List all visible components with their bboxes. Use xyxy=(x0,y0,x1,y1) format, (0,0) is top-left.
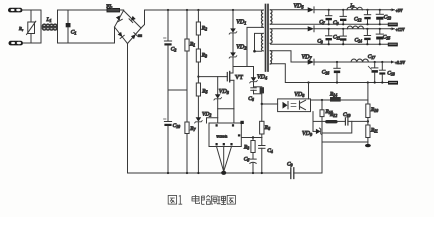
AC plug terminal bottom xyxy=(9,41,28,46)
node R8 branch xyxy=(252,136,254,138)
opto left wire xyxy=(262,103,278,105)
svg-text:R11: R11 xyxy=(370,128,378,134)
svg-text:C18: C18 xyxy=(387,71,395,77)
transformer secondary A winding xyxy=(270,10,272,24)
inductor L4 xyxy=(351,59,368,62)
node top rail C2 column xyxy=(167,9,169,11)
wire primary return loop xyxy=(247,27,262,66)
bridge diode upper-left xyxy=(115,15,122,22)
feedback divider R10 xyxy=(366,83,370,126)
IC U1 xyxy=(209,121,244,147)
feedback divider R11 xyxy=(366,125,370,145)
transformer primary winding xyxy=(261,10,263,27)
resistor R1 xyxy=(185,10,189,122)
zener VD9 xyxy=(313,128,322,135)
wire IC pin jog xyxy=(207,118,218,123)
MOSFET VT xyxy=(227,72,234,109)
return B junctions xyxy=(328,43,381,45)
transformer aux winding xyxy=(261,33,263,51)
svg-text:VD2: VD2 xyxy=(236,45,246,51)
svg-text:R2: R2 xyxy=(201,26,207,32)
capacitor C5 xyxy=(250,159,256,173)
svg-text:C9: C9 xyxy=(333,20,339,26)
optocoupler VD8 xyxy=(278,83,311,112)
svg-text:R8: R8 xyxy=(243,145,249,151)
capacitor C10 xyxy=(164,119,172,173)
svg-text:UC3842: UC3842 xyxy=(217,135,228,139)
svg-text:Rv: Rv xyxy=(18,26,24,32)
common mode choke L1 xyxy=(41,10,58,43)
bridge diode lower-right xyxy=(131,33,138,40)
secondary B return xyxy=(271,43,388,45)
opto transistor wire to R14 xyxy=(311,99,331,101)
capacitor C11 xyxy=(340,28,346,45)
svg-text:C19: C19 xyxy=(343,112,351,118)
svg-text:L1: L1 xyxy=(46,17,52,23)
bottom primary ground rail xyxy=(128,172,291,174)
wire top AC xyxy=(27,9,41,11)
svg-text:+3.3V: +3.3V xyxy=(395,60,405,65)
AC plug terminal top xyxy=(8,8,27,13)
svg-text:R10: R10 xyxy=(370,107,378,113)
svg-text:R12: R12 xyxy=(329,112,337,118)
svg-text:C5: C5 xyxy=(244,157,250,163)
secondary C return xyxy=(271,64,391,83)
wire bridge left vertex down xyxy=(114,27,116,43)
node bottom rail C10 xyxy=(167,172,169,174)
wire aux winding connections xyxy=(253,33,261,52)
ground dot below divider xyxy=(365,144,371,147)
transformer secondary C winding xyxy=(270,51,272,65)
wire bottom AC xyxy=(27,42,41,44)
varistor RV xyxy=(27,10,36,43)
svg-text:C15: C15 xyxy=(383,35,391,41)
node top rail R2 column xyxy=(197,9,199,11)
node opto left xyxy=(261,103,263,105)
wire drain node horizontal xyxy=(233,66,254,68)
Y-capacitor C9 xyxy=(291,168,322,179)
capacitor C12 xyxy=(364,9,370,25)
zener VD3 branch xyxy=(214,77,234,123)
bridge diode upper-right xyxy=(129,16,136,23)
glyph 理 xyxy=(217,196,226,204)
glyph 图 xyxy=(168,196,176,205)
svg-text:C9: C9 xyxy=(287,162,293,168)
snubber C6 and R9 xyxy=(251,87,264,104)
node bottom rail R7 xyxy=(186,172,188,174)
wire MOSFET source to IC xyxy=(233,109,235,123)
node top rail R1 column xyxy=(186,9,188,11)
capacitor C18 xyxy=(379,61,385,83)
secondary C top wire xyxy=(271,51,308,62)
GND terminal B xyxy=(388,43,398,47)
svg-text:C16: C16 xyxy=(322,70,330,76)
zener VD4 xyxy=(250,67,258,87)
resistor R6 xyxy=(260,104,264,138)
svg-text:+5V: +5V xyxy=(396,8,403,13)
svg-text:L2: L2 xyxy=(350,3,355,9)
opto cathode riser xyxy=(312,112,314,132)
secondary A top wire xyxy=(271,9,308,11)
resistor R7 xyxy=(185,122,189,173)
svg-text:VD8: VD8 xyxy=(294,92,305,98)
gate wire xyxy=(198,76,227,78)
capacitor C14 xyxy=(364,28,370,45)
capacitor C9a xyxy=(340,9,346,25)
svg-text:C17: C17 xyxy=(368,54,377,60)
diode VD6 xyxy=(308,26,391,32)
capacitor C17 xyxy=(368,61,378,83)
caption 图1 电路原理图 xyxy=(168,195,235,205)
return C junctions xyxy=(307,81,383,83)
secondary A return xyxy=(271,23,388,25)
capacitor C13 xyxy=(376,9,383,25)
svg-text:R3: R3 xyxy=(201,53,207,59)
svg-text:VT: VT xyxy=(235,75,243,81)
capacitor C7 xyxy=(326,9,332,25)
resistor R14 xyxy=(330,97,368,102)
svg-text:C13: C13 xyxy=(384,15,392,21)
bulk capacitor C2 xyxy=(164,10,172,121)
diode VD7 xyxy=(308,59,391,65)
output terminal B xyxy=(391,27,395,30)
capacitor C16 xyxy=(334,61,340,83)
wire bottom to bridge xyxy=(58,42,115,44)
svg-text:VD7: VD7 xyxy=(302,55,313,61)
wire bridge right vertex to DC+ rail xyxy=(141,10,145,28)
R12 C19 line xyxy=(313,118,368,125)
svg-text:C2: C2 xyxy=(171,47,177,53)
wire DC- drop from bridge xyxy=(127,44,129,174)
svg-text:C6: C6 xyxy=(248,96,254,102)
wire primary top xyxy=(262,9,264,11)
svg-text:R6: R6 xyxy=(264,125,270,131)
svg-text:VD2: VD2 xyxy=(202,112,211,118)
node gate junction xyxy=(197,76,199,78)
diode VD5 xyxy=(308,7,391,13)
node divider mid xyxy=(367,120,369,122)
bridge tiny label xyxy=(138,34,142,37)
glyph 电 xyxy=(192,195,200,204)
svg-text:C14: C14 xyxy=(355,38,363,44)
svg-text:R1: R1 xyxy=(189,42,195,48)
GND terminal A xyxy=(388,23,398,27)
svg-text:C4: C4 xyxy=(267,148,273,154)
capacitor C4 xyxy=(259,138,265,174)
IC ground triangle xyxy=(217,147,232,175)
svg-text:R5: R5 xyxy=(201,89,207,95)
output terminal C xyxy=(391,60,395,63)
resistor R8 xyxy=(251,138,255,159)
zener VD1 xyxy=(229,10,237,52)
DC+ top rail xyxy=(145,9,264,11)
svg-text:+12V: +12V xyxy=(396,27,405,32)
svg-text:C11: C11 xyxy=(333,35,340,41)
bridge diode lower-left xyxy=(117,32,124,39)
zener VD2 xyxy=(229,52,237,73)
resistor R5 xyxy=(196,83,200,117)
transformer secondary B winding xyxy=(270,29,272,44)
svg-text:VD5: VD5 xyxy=(294,4,304,10)
clamp column node xyxy=(232,9,234,11)
capacitor C1 xyxy=(66,10,71,43)
IC right pin wire xyxy=(241,137,261,139)
svg-text:VD1: VD1 xyxy=(236,20,246,26)
inductor L3 xyxy=(347,26,363,29)
svg-text:VD4: VD4 xyxy=(257,75,267,81)
inductor L2 xyxy=(347,7,362,10)
svg-text:C10: C10 xyxy=(173,123,181,129)
glyph 1 xyxy=(179,196,183,205)
resistor R2 xyxy=(196,10,200,49)
zener VD2b xyxy=(195,117,203,173)
svg-text:VD9: VD9 xyxy=(302,131,313,137)
svg-text:C1: C1 xyxy=(71,30,77,36)
secondary B top wire xyxy=(271,28,308,30)
capacitor C15 xyxy=(376,28,383,45)
wire top to fuse xyxy=(58,9,108,11)
transformer T core xyxy=(266,5,269,72)
fuse FU1 xyxy=(107,9,124,12)
node bottom rail zener column xyxy=(197,172,199,174)
output terminal A xyxy=(391,8,395,11)
svg-text:C12: C12 xyxy=(354,17,362,23)
svg-text:R7: R7 xyxy=(189,126,196,132)
glyph 原 xyxy=(211,196,218,205)
glyph 路 xyxy=(202,195,211,204)
GND terminal C xyxy=(388,81,398,85)
capacitor C8 xyxy=(326,28,332,45)
svg-text:VD3: VD3 xyxy=(219,89,229,95)
resistor R15 xyxy=(320,100,324,173)
wire zener to R12 node xyxy=(322,121,352,133)
secondary ground line xyxy=(322,141,368,143)
bottom rail junction dots xyxy=(252,172,263,174)
wire primary bottom stub xyxy=(262,26,264,28)
bridge rectifier xyxy=(115,11,142,44)
return A junctions xyxy=(328,23,381,25)
svg-text:R14: R14 xyxy=(329,92,337,98)
svg-text:C8: C8 xyxy=(317,39,323,45)
node R15 top xyxy=(321,99,323,101)
glyph 图 (second) xyxy=(227,196,235,205)
wire stub VCC node xyxy=(168,89,187,91)
resistor R3 xyxy=(196,49,200,83)
